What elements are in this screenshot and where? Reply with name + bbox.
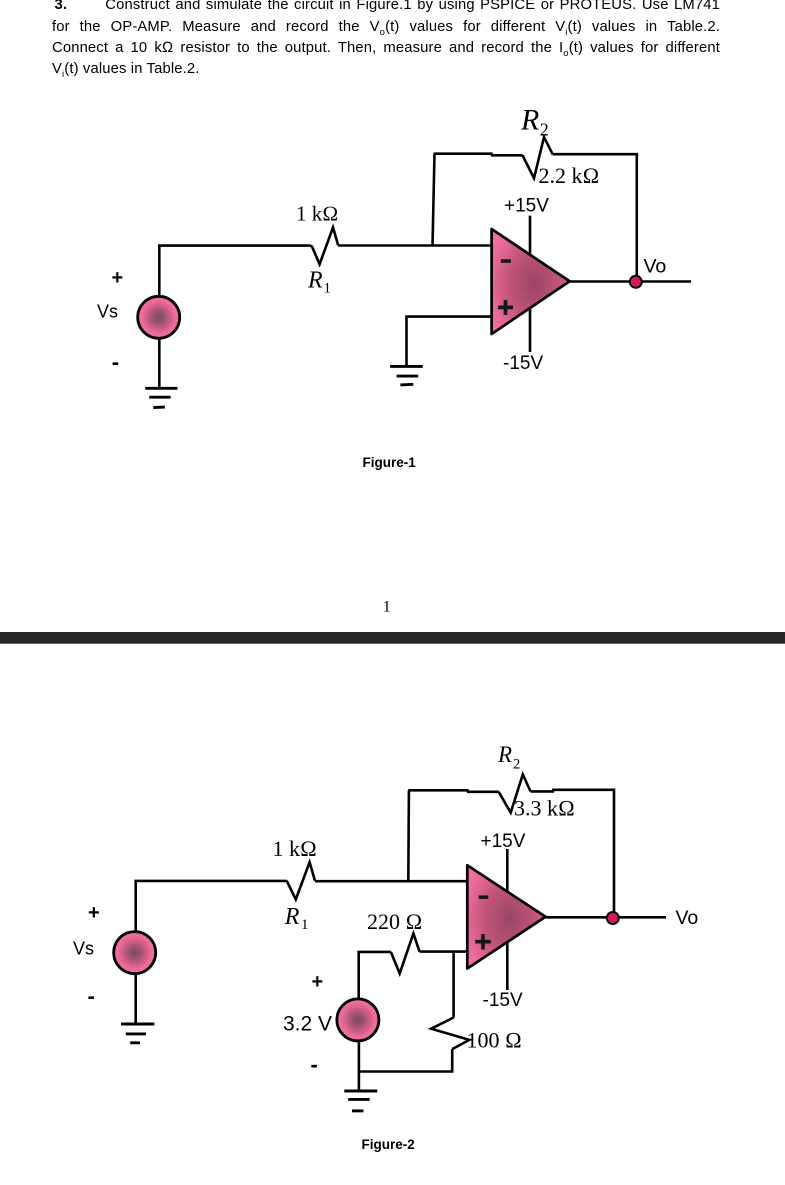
svg-text:R: R [497, 742, 512, 767]
supply rail line (+15V to -15V) [529, 216, 532, 352]
op-amp U2 triangle [467, 865, 545, 968]
svg-text:1: 1 [301, 917, 309, 933]
page separator bar [0, 632, 785, 644]
svg-text:Vo: Vo [676, 907, 699, 929]
output node dot Vo [607, 912, 619, 924]
resistor 220 ohm zigzag [391, 934, 420, 974]
svg-text:-: - [88, 984, 95, 1009]
wire R1 to op-amp inverting input [315, 880, 467, 883]
svg-text:Vs: Vs [73, 938, 94, 958]
wire R1 to op-amp inverting input [338, 244, 491, 247]
3.2V source circle [337, 999, 379, 1041]
svg-text:1: 1 [324, 281, 332, 297]
svg-text:Figure-2: Figure-2 [362, 1137, 415, 1152]
output node dot Vo [630, 276, 642, 288]
wire 220 ohm to op-amp + input [359, 952, 468, 999]
ground (op-amp + input) [390, 366, 423, 385]
op-amp minus sign [501, 259, 511, 263]
feedback junction vertical wire [407, 791, 410, 882]
op-amp U1 triangle [492, 229, 570, 334]
svg-text:R: R [520, 103, 539, 136]
svg-text:Figure-1: Figure-1 [363, 455, 417, 470]
resistor R1 (1 kOhm) zigzag [287, 862, 315, 899]
svg-text:-: - [311, 1052, 318, 1077]
svg-text:1 kΩ: 1 kΩ [296, 202, 338, 226]
svg-text:Vo: Vo [644, 256, 667, 278]
Vs source circle [114, 932, 156, 974]
wire non-inverting input to ground [407, 317, 492, 367]
wire + input junction down to 100 ohm [452, 951, 455, 1017]
ground (Vs) [145, 388, 177, 407]
svg-text:+15V: +15V [481, 831, 526, 852]
resistor R1 (1 kOhm) zigzag [310, 227, 339, 264]
svg-text:220 Ω: 220 Ω [367, 909, 422, 934]
supply rail line (+15V to -15V) [506, 849, 509, 990]
svg-text:1: 1 [383, 599, 391, 616]
Vs source circle [138, 296, 180, 338]
svg-text:R: R [307, 268, 323, 294]
svg-text:2.2 kΩ: 2.2 kΩ [539, 163, 600, 188]
feedback top wire [434, 154, 523, 156]
resistor R2 (3.3 kOhm) zigzag [499, 774, 531, 812]
svg-text:3.3 kΩ: 3.3 kΩ [514, 796, 575, 821]
wire from Vs top to R1 [159, 246, 309, 297]
ground (Vs fig2) [121, 1024, 154, 1043]
svg-text:1 kΩ: 1 kΩ [273, 836, 317, 861]
svg-text:+15V: +15V [504, 196, 549, 217]
feedback wire right + down to output node [531, 790, 615, 918]
ground (3.2V source) [344, 1091, 377, 1111]
op-amp plus sign [475, 934, 491, 950]
output wire [546, 916, 666, 919]
feedback top wire [408, 790, 498, 792]
svg-text:-15V: -15V [483, 990, 523, 1011]
op-amp plus sign [498, 300, 513, 315]
problem statement paragraph [52, 0, 720, 81]
svg-text:3.2 V: 3.2 V [283, 1012, 332, 1035]
wire 100 ohm bottom to ground node [359, 1049, 452, 1071]
svg-text:Vs: Vs [97, 302, 118, 322]
wire Vs bottom to ground [158, 338, 161, 388]
resistor R2 (2.2 kOhm) zigzag [523, 137, 554, 178]
svg-text:R: R [284, 904, 300, 930]
svg-text:100 Ω: 100 Ω [467, 1027, 522, 1052]
wire from Vs top to R1 [136, 881, 287, 932]
svg-text:+: + [312, 971, 324, 993]
feedback wire right + down to output node [553, 154, 637, 282]
svg-text:2: 2 [540, 120, 549, 140]
svg-text:2: 2 [513, 756, 520, 772]
op-amp minus sign [479, 895, 489, 899]
svg-text:+: + [112, 267, 124, 289]
svg-text:-15V: -15V [503, 353, 543, 374]
wire Vs bottom to ground [134, 974, 137, 1024]
svg-text:-: - [112, 350, 119, 375]
output wire [570, 280, 691, 283]
svg-text:+: + [88, 902, 100, 924]
wire 3.2V bottom to ground [358, 1041, 361, 1091]
node: feedback junction vertical wire [433, 154, 435, 246]
resistor 100 ohm vertical zigzag [431, 1018, 469, 1050]
